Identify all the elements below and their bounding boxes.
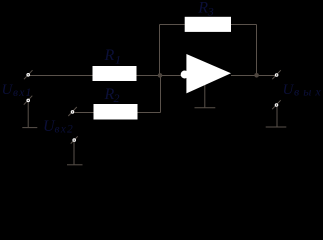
wire Uin2 lower stem	[73, 142, 75, 164]
junction N2 (output node)	[254, 73, 259, 78]
wire R2 to riser	[138, 112, 161, 114]
junction N1 (summing node)	[158, 73, 163, 78]
wire left port lower stem	[27, 102, 29, 127]
resistor R2 body	[94, 104, 138, 120]
terminal Uin1 (upper left port)	[27, 74, 30, 77]
op-amp U1 inverting input bubble	[181, 71, 189, 79]
wire feedback top left horizontal	[160, 24, 185, 26]
op-amp U1 triangle	[186, 54, 231, 93]
terminal tick left port lower	[24, 96, 33, 105]
terminal tick Uout	[272, 70, 281, 79]
svg-text:3: 3	[207, 4, 214, 18]
ground G2 under Uin2 bar	[67, 164, 83, 166]
terminal Uout (output port)	[275, 74, 278, 77]
ground G4 right port bar	[266, 126, 287, 128]
terminal tick Uin2	[68, 107, 77, 116]
wire R1 to op-amp input node	[137, 75, 182, 77]
wire R2 riser vertical to node N1	[160, 76, 162, 113]
wire feedback top right horizontal	[231, 24, 257, 26]
wire Uin2 terminal to R2	[75, 112, 94, 114]
resistor R3 body (feedback)	[185, 17, 231, 32]
wire op-amp ground stem	[204, 85, 206, 108]
ground G3 under op-amp bar	[195, 107, 216, 109]
wire feedback left vertical	[159, 25, 161, 76]
terminal tick Uin1	[24, 70, 33, 79]
svg-text:вых: вых	[294, 85, 323, 99]
ground G1 left port bar	[22, 127, 37, 129]
terminal Uin2 lower	[73, 139, 76, 142]
svg-text:2: 2	[114, 91, 120, 105]
terminal tick Uin2 lower	[71, 136, 78, 143]
svg-text:R: R	[104, 47, 115, 64]
svg-text:вх2: вх2	[55, 124, 74, 136]
svg-text:U: U	[2, 82, 14, 98]
wire Uin1 terminal to R1	[30, 75, 93, 77]
terminal Uout lower	[275, 104, 278, 107]
wire feedback right vertical	[256, 25, 258, 76]
wire right port lower stem	[276, 107, 278, 127]
terminal left port lower	[27, 99, 30, 102]
svg-text:U: U	[283, 82, 295, 98]
svg-text:R: R	[197, 0, 208, 16]
wire op-amp output to Uout terminal	[231, 75, 275, 77]
resistor R1 body	[93, 66, 137, 81]
terminal Uin2 (second input)	[71, 111, 74, 114]
svg-text:вх1: вх1	[13, 87, 32, 99]
svg-text:1: 1	[115, 52, 121, 66]
terminal tick Uout lower	[272, 100, 281, 109]
